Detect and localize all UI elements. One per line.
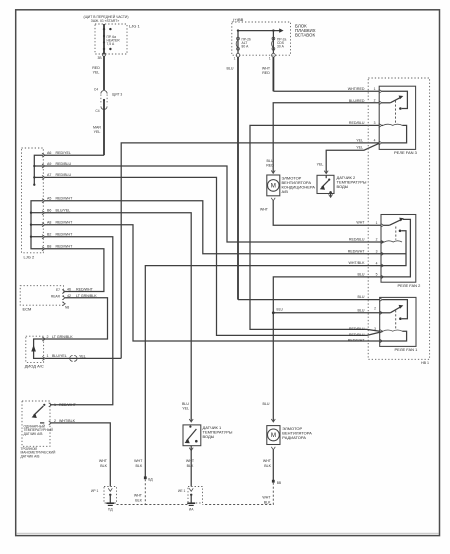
wire A7 RED/BLU: LJG2 to relay FAN1 pin 3 [45,177,382,335]
svg-text:А9: А9 [47,162,51,166]
svg-text:3: 3 [374,121,376,125]
svg-text:46: 46 [67,288,71,292]
svg-text:30 А: 30 А [277,45,285,49]
svg-text:ВОДЫ: ВОДЫ [203,434,215,439]
water temp sensor 1 (ДАТЧИК 1 ТЕМПЕРАТУРЫ ВОДЫ) [183,419,233,451]
svg-text:ВСТАВОК: ВСТАВОК [295,33,315,38]
wire A5 RED/WHT: LJG2 to relay FAN2 pin 3 [45,201,384,254]
svg-text:WHT: WHT [263,459,272,463]
svg-text:YEL: YEL [182,407,189,411]
svg-text:3В: 3В [98,56,103,60]
wire BLU trunk: fuse to relay FAN1 pin 1 [227,57,380,300]
fuse FL-2a CDS 30A [269,31,287,61]
joint connector LJG 2 [22,148,44,260]
svg-text:MAR: MAR [93,126,101,130]
svg-text:4: 4 [374,139,376,143]
svg-text:RED/WHT: RED/WHT [56,233,74,237]
diode A/C (ДИОД А/С) [25,335,74,369]
wire B8 RED/WHT: LJG2 to ECM pin 1 [45,249,104,292]
svg-text:BLK: BLK [136,464,143,468]
svg-text:А7: А7 [47,173,51,177]
svg-text:НВ 1: НВ 1 [421,361,429,365]
svg-text:ВД: ВД [148,478,153,482]
svg-text:YEL: YEL [94,130,101,134]
svg-text:WHT: WHT [356,221,365,225]
svg-text:5: 5 [376,273,378,277]
svg-text:1: 1 [54,403,56,407]
relay FAN1 U3 [374,297,418,351]
svg-text:ПД: ПД [108,508,113,512]
svg-text:80 А: 80 А [242,45,250,49]
dashed ground link between grounds [145,504,188,506]
svg-text:WHT: WHT [99,459,108,463]
svg-text:(+)ВВ: (+)ВВ [233,17,244,22]
svg-text:РЕЛЕ FAN 2: РЕЛЕ FAN 2 [398,283,422,288]
LJG2 pin chevrons [42,153,45,251]
svg-text:RED/BLU: RED/BLU [56,162,72,166]
svg-text:ВОДЫ: ВОДЫ [337,184,349,189]
svg-text:RED/WHT: RED/WHT [348,249,366,253]
svg-text:М: М [271,432,276,439]
wire WHT/BLK: sensor 1 to ground box [186,451,195,487]
LJG2 pin labels [47,151,73,249]
svg-text:RED: RED [262,71,270,75]
inline connector on diode wire + YEL label [45,355,121,362]
svg-text:WHT: WHT [134,459,143,463]
radiator fan motor M2 [267,419,312,450]
svg-text:LJG 2: LJG 2 [24,255,35,260]
svg-text:RED/WHT: RED/WHT [56,221,74,225]
ground IP1 (left) [91,487,117,512]
svg-text:REAR: REAR [51,294,61,298]
svg-text:3: 3 [376,250,378,254]
wire WHT/BLK: radiator motor to ground junction [203,450,282,505]
wire B6 BLU/YEL: LJG2 to water temp sensor 1 [45,213,191,421]
svg-text:4: 4 [376,261,378,265]
svg-text:YEL: YEL [356,139,363,143]
wire WHT/RED: fuse to relay FAN3 pin 1 [262,57,379,91]
svg-text:RED/WHT: RED/WHT [56,197,74,201]
relay FAN3 U1 [374,86,418,155]
relay FAN2 wire labels [348,238,366,277]
svg-text:А/В: А/В [282,189,289,194]
svg-text:ДАТЧИК А/В: ДАТЧИК А/В [21,454,41,458]
svg-text:LJG 1: LJG 1 [129,24,140,29]
svg-text:В2: В2 [47,233,51,237]
svg-text:BLU: BLU [182,402,189,406]
svg-text:С4: С4 [95,109,99,113]
svg-text:RED/WHT: RED/WHT [76,288,94,292]
relay FAN3 wire labels [348,87,365,149]
svg-text:BLU: BLU [263,402,270,406]
svg-text:ЩИТ 3: ЩИТ 3 [112,93,122,97]
ground IE1 (middle) [178,487,203,512]
wire WHT/BLK: relay FAN2 pin 4 to ground junction [117,266,384,505]
svg-text:ИР 1: ИР 1 [91,489,98,493]
connector C4 [94,88,122,114]
svg-text:М: М [271,183,276,190]
A/C pressure switch (bottom-left sensor) [21,401,77,458]
svg-text:WHT: WHT [262,496,271,500]
svg-text:YEL: YEL [79,355,86,359]
svg-text:ECM: ECM [23,307,32,312]
svg-text:RED/BLU: RED/BLU [349,327,365,331]
svg-text:1: 1 [234,57,236,61]
svg-text:2: 2 [376,238,378,242]
water temp switch 2 (ДАТЧИК 2 ТЕМПЕРАТУРЫ ВОДЫ) [317,171,367,198]
fusible link block (БЛОК ПЛАВКИХ ВСТАВОК) [232,22,316,55]
wire fuse to C4, label RED/YEL [92,56,104,90]
svg-text:RED/WHT: RED/WHT [59,403,77,407]
fuse FL-2b ALT 80A [234,31,251,61]
svg-text:WHT/RED: WHT/RED [348,87,365,91]
svg-text:2: 2 [374,99,376,103]
svg-text:WHT: WHT [262,67,271,71]
wire YEL: water temp switch 2 to relay FAN3 pin 4 [317,143,380,173]
svg-text:BLK: BLK [264,501,271,505]
svg-text:ДАТЧИК А/В: ДАТЧИК А/В [24,432,44,436]
svg-text:1: 1 [47,354,49,358]
relay FAN1 wire labels [348,295,366,342]
svg-text:YEL: YEL [356,145,363,149]
svg-text:RED/YEL: RED/YEL [56,151,71,155]
A/C condenser fan motor M1 [267,170,315,200]
svg-text:YEL: YEL [93,71,100,75]
svg-text:7,5 А: 7,5 А [107,42,115,46]
svg-text:А5: А5 [47,197,51,201]
svg-text:РАДИАТОРА: РАДИАТОРА [282,435,306,440]
wire BLU: relay FAN1 pin 2 junction to FAN2 pin 5 and radiator fan motor [263,277,384,421]
svg-text:BLK: BLK [135,499,142,503]
svg-text:WHT: WHT [134,494,143,498]
LJG2 bus A (pins A6,A9,A7) [33,155,43,186]
wire B2 RED/WHT: LJG2 to A/C pressure switch pin 1 [45,237,113,405]
svg-text:RED/BLU: RED/BLU [349,238,365,242]
wire A9 RED/BLU: LJG2 to relay FAN2 pin 2 [45,166,384,242]
svg-text:N8: N8 [65,305,69,309]
svg-text:Е7: Е7 [56,288,60,292]
svg-text:RED: RED [266,164,274,168]
svg-text:LT GRN/BLK: LT GRN/BLK [52,335,73,339]
fusible link FL-6a HEATER 7.5A [98,24,121,60]
ECM [20,286,69,312]
LJG2 bus B (pins A5,B6,A8,B2,B8) [30,201,43,249]
fusible link box (ЩИТ В ПЕРЕДНЕЙ ЧАСТИ) [84,15,129,54]
svg-text:BLU: BLU [358,273,365,277]
svg-text:В8: В8 [47,245,51,249]
svg-text:ИА: ИА [189,508,194,512]
ECM pin wire labels [67,288,97,298]
svg-text:RED/WHT: RED/WHT [348,339,366,343]
svg-text:RED/BLU: RED/BLU [349,121,365,125]
svg-text:ДИОД А/С: ДИОД А/С [25,364,44,369]
svg-text:3: 3 [374,327,376,331]
svg-text:BLU: BLU [227,67,234,71]
wire BLU/RED: relay FAN3 pin 2 to A/C fan motor [266,103,379,173]
svg-text:BLK: BLK [187,464,194,468]
relay FAN2 U2 [376,215,421,289]
svg-text:RED/BLU: RED/BLU [56,173,72,177]
svg-text:BLU/YEL: BLU/YEL [56,209,71,213]
svg-text:1: 1 [376,221,378,225]
svg-text:С4: С4 [94,88,98,92]
svg-text:ВВ: ВВ [277,481,282,485]
svg-text:WHT: WHT [260,208,269,212]
svg-text:BLU: BLU [277,308,284,312]
svg-text:1: 1 [374,87,376,91]
svg-text:ЗАЖ. IG «START»: ЗАЖ. IG «START» [91,19,120,23]
svg-text:BLK: BLK [100,464,107,468]
svg-text:WHT: WHT [186,459,195,463]
relay box J/B dashed enclosure [368,78,429,365]
svg-text:RED/BLU: RED/BLU [349,333,365,337]
wire A8 RED/WHT: LJG2 to relay FAN1 pin 4 [45,225,382,341]
svg-text:RED/WHT: RED/WHT [56,245,74,249]
svg-text:BLU: BLU [358,295,365,299]
svg-text:YEL: YEL [317,163,324,167]
svg-text:ИЕ 1: ИЕ 1 [178,489,185,493]
svg-text:РЕЛЕ FAN 3: РЕЛЕ FAN 3 [394,150,418,155]
svg-text:2: 2 [47,335,49,339]
svg-text:BLK: BLK [264,464,271,468]
wire C4 down, label MAR/YEL [44,100,104,155]
svg-text:WHT/BLK: WHT/BLK [349,261,366,265]
svg-text:BLU: BLU [267,159,274,163]
wire RED/BLU: relay FAN3 pin 3 down to relay FAN1 pin 3 [250,125,380,331]
svg-text:В6: В6 [47,209,51,213]
svg-text:RED: RED [92,66,100,70]
svg-text:РЕЛЕ FAN 1: РЕЛЕ FAN 1 [395,347,419,352]
svg-text:BLU/RED: BLU/RED [349,99,365,103]
wire LT GRN/BLK: ECM pin 2 to diode pin 2 [44,298,108,339]
wire YEL: corner bus to relay FAN3 pin 4 and down to A/C diode [121,143,379,359]
svg-text:BLU/YEL: BLU/YEL [52,354,67,358]
wire WHT: A/C fan motor to relay FAN2 pin 1 [260,201,381,226]
wire WHT/BLK: pressure switch pin 2 to ground [52,423,111,487]
svg-text:2: 2 [374,307,376,311]
svg-text:1: 1 [269,57,271,61]
svg-text:А8: А8 [47,221,51,225]
svg-text:А6: А6 [47,151,51,155]
svg-text:BLU: BLU [358,308,365,312]
